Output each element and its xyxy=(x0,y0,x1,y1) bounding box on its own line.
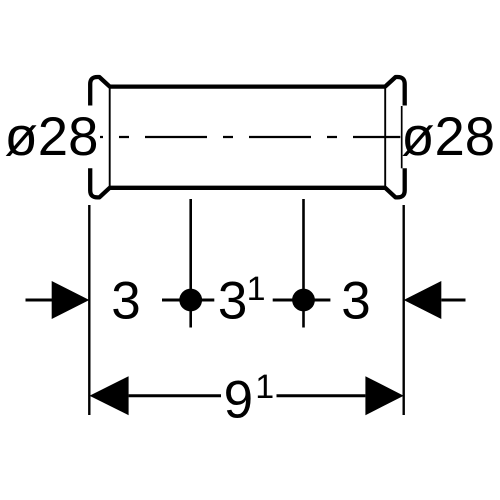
upper dim segment a xyxy=(162,299,214,302)
lower dim left arrow xyxy=(90,376,129,415)
left extension line xyxy=(88,205,90,415)
lower dim segment b xyxy=(277,394,366,397)
lower dim right arrow xyxy=(365,376,403,415)
coupling body bottom contour xyxy=(90,168,405,197)
centerline xyxy=(100,136,400,138)
svg-text:1: 1 xyxy=(255,368,274,406)
upper dim segment b xyxy=(273,299,331,302)
svg-text:9: 9 xyxy=(224,371,253,430)
mid extension line 1 xyxy=(189,199,192,328)
dim point dot 1 xyxy=(179,289,202,312)
upper dim left tail xyxy=(26,299,54,302)
svg-text:3: 3 xyxy=(341,272,370,331)
dim point dot 2 xyxy=(292,289,315,312)
svg-text:3: 3 xyxy=(111,272,140,331)
right end face xyxy=(384,87,386,188)
svg-text:3: 3 xyxy=(218,272,247,331)
svg-text:1: 1 xyxy=(247,270,266,308)
left end face xyxy=(109,87,111,188)
right extension line xyxy=(403,205,405,415)
svg-text:ø28: ø28 xyxy=(401,106,495,167)
upper dim left arrow xyxy=(52,281,90,319)
coupling body top contour xyxy=(90,77,405,106)
lower dim segment a xyxy=(129,394,221,397)
upper dim right arrow xyxy=(404,281,442,319)
upper dim right tail xyxy=(441,299,465,302)
mid extension line 2 xyxy=(302,199,305,328)
right bead mid thin line xyxy=(401,106,403,168)
svg-text:ø28: ø28 xyxy=(5,106,99,167)
